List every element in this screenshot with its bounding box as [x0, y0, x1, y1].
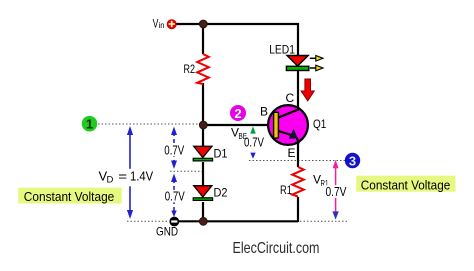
ground terminal GND: [169, 217, 179, 227]
svg-text:GND: GND: [156, 225, 178, 239]
resistor R2: [197, 54, 209, 84]
svg-text:B: B: [260, 105, 268, 119]
svg-text:in: in: [159, 20, 165, 30]
svg-text:0.7V: 0.7V: [164, 144, 185, 158]
svg-text:1: 1: [86, 117, 93, 132]
wire top horizontal Vin to corner: [176, 24, 298, 56]
svg-text:Constant Voltage: Constant Voltage: [24, 189, 115, 204]
wire LED to collector: [297, 70, 299, 110]
svg-text:BE: BE: [239, 132, 248, 141]
current direction red block arrow: [301, 79, 314, 101]
dotted level line bottom right: [300, 220, 347, 222]
label VR1: [313, 173, 329, 189]
VR1 measurement arrow: [332, 160, 338, 220]
wire D2 to bottom: [202, 202, 204, 221]
annotation constant voltage left: [18, 188, 121, 204]
svg-text:D1: D1: [214, 147, 228, 161]
diode D2: [193, 186, 212, 201]
svg-text:0.7V: 0.7V: [326, 184, 347, 199]
svg-text:3: 3: [349, 153, 356, 168]
wire D1 to D2: [202, 162, 204, 186]
svg-text:R1: R1: [280, 183, 292, 197]
svg-text:E: E: [288, 146, 296, 160]
dotted level line bottom left: [127, 220, 169, 222]
label 0.7V base-emitter: [243, 135, 266, 150]
dotted level line node1 to base junction: [98, 123, 200, 125]
wire bottom horizontal: [178, 220, 298, 222]
lower 0.7V measurement arrow: [171, 174, 177, 218]
svg-text:D: D: [107, 175, 114, 186]
VBE measurement arrow: [250, 126, 256, 158]
dotted level line emitter to node3: [249, 160, 345, 162]
wire emitter to R1: [297, 143, 299, 167]
LED LED1: [286, 56, 308, 71]
junction bottom: [199, 217, 207, 225]
svg-text:0.7V: 0.7V: [165, 190, 186, 204]
svg-text:ElecCircuit.com: ElecCircuit.com: [233, 240, 320, 257]
LED light arrow lower: [310, 65, 323, 71]
transistor Q1: [268, 105, 308, 145]
annotation constant voltage right: [356, 176, 455, 193]
dotted level line D1-D2 midpoint: [170, 170, 202, 172]
LED light arrow upper: [310, 56, 323, 62]
label VD = 1.4V: [97, 168, 157, 186]
svg-text:LED1: LED1: [269, 42, 295, 56]
junction top: [199, 20, 207, 28]
junction base: [199, 121, 207, 129]
svg-text:R2: R2: [184, 62, 196, 76]
svg-text:D2: D2: [214, 186, 228, 200]
resistor R1: [292, 167, 304, 197]
svg-text:C: C: [286, 91, 295, 105]
label Vin: [153, 17, 165, 31]
svg-text:1.4V: 1.4V: [130, 169, 153, 184]
svg-text:Constant Voltage: Constant Voltage: [361, 177, 451, 192]
upper 0.7V measurement arrow: [171, 127, 177, 170]
label 0.7V lower left: [163, 190, 186, 204]
Vin positive terminal: [167, 20, 176, 29]
label VBE: [231, 126, 247, 142]
wire left vertical junction to R2: [202, 24, 204, 54]
diode D1: [193, 146, 212, 161]
wire base horizontal: [203, 124, 274, 126]
VD measurement arrow: [127, 126, 133, 219]
wire R1 bottom lead: [297, 197, 299, 222]
svg-text:Q1: Q1: [313, 117, 327, 131]
label 0.7V upper left: [163, 144, 186, 158]
svg-text:=: =: [118, 168, 127, 183]
svg-text:2: 2: [234, 106, 241, 121]
node 1: [82, 116, 98, 132]
node 3: [345, 153, 360, 169]
wire R2 to D1: [202, 83, 204, 146]
svg-text:0.7V: 0.7V: [244, 135, 264, 150]
node 2: [230, 105, 246, 121]
label 0.7V across R1: [324, 184, 348, 199]
